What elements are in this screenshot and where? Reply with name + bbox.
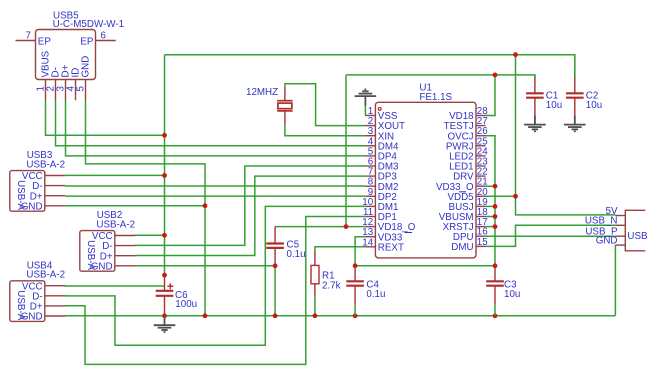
svg-text:GND: GND — [21, 201, 43, 212]
svg-text:10u: 10u — [586, 100, 602, 111]
connector USB3 body — [10, 171, 45, 212]
junction C6 top / 5V — [162, 273, 167, 278]
ground above VSS pin1 (flipped) — [364, 96, 366, 105]
junction C4 bottom / rail — [353, 313, 358, 318]
wire crystal top to XOUT pin2 — [285, 84, 365, 126]
capacitor C1 plates — [526, 92, 544, 94]
wire USB5 D+ to DP4 pin5 — [66, 100, 366, 156]
junction C5 bottom / USB2 GND — [273, 263, 278, 268]
capacitor C3 plates — [486, 280, 504, 282]
wire 5V vertical branch to VDD5 and 5V pin — [516, 55, 616, 215]
U1 pin 15 DMU — [476, 245, 486, 247]
wire VD18 rail — [346, 75, 535, 78]
USB5 pin 1 VBUS — [45, 80, 47, 101]
wire C2 top stub — [574, 55, 576, 78]
ground under C6 — [164, 316, 166, 325]
wire USB5 GND down and right — [86, 100, 206, 316]
svg-text:6: 6 — [100, 31, 106, 42]
USB5 pin 4 ID — [75, 80, 77, 101]
USB5 pin 7 EP — [16, 40, 36, 42]
svg-text:USB_N: USB_N — [585, 216, 618, 227]
U1 pin 16 DPU — [476, 235, 486, 237]
wire REXT pin14 to R1 — [315, 247, 365, 251]
USB5 pin 6 EP — [96, 40, 116, 42]
junction R1 bottom / rail — [313, 313, 318, 318]
svg-text:DMU: DMU — [451, 242, 473, 253]
capacitor C5 — [274, 227, 276, 244]
svg-text:REXT: REXT — [378, 242, 404, 253]
svg-text:12MHZ: 12MHZ — [246, 87, 278, 98]
U1 pin 12 VD18_O — [365, 226, 375, 228]
connector USB2 body — [80, 231, 115, 272]
U1 pin 22 DRV — [476, 175, 486, 177]
junction C3 top / VD33 — [493, 263, 498, 268]
junction pin18 VD33 — [493, 214, 498, 219]
junction pin17 VD33 — [493, 224, 498, 229]
svg-text:U-C-M5DW-W-1: U-C-M5DW-W-1 — [53, 19, 124, 30]
USB5 pin 5 GND — [85, 80, 87, 101]
svg-text:7: 7 — [26, 31, 31, 42]
wire C1 top stub — [534, 75, 536, 78]
wire USB3 D+ to DP2 pin9 — [65, 195, 365, 197]
USB4 pin VCC — [45, 285, 65, 287]
svg-text:USB: USB — [627, 231, 648, 242]
capacitor C6 electrolytic — [164, 275, 166, 290]
wire USB_N pin15 to connector — [486, 225, 616, 246]
U1 pin-1 marker — [378, 108, 381, 111]
wire USB GND drop — [614, 245, 616, 316]
junction pin21 VD33 — [493, 184, 498, 189]
wire USB2 D- to DM3 pin6 — [135, 166, 366, 245]
wire VD33 right vertical pin26 to C3 — [486, 136, 496, 267]
svg-text:GND: GND — [91, 261, 113, 272]
wire USB_P pin16 to connector — [486, 235, 616, 237]
junction C6 bottom / rail — [162, 313, 167, 318]
USB2 pin VCC — [115, 235, 135, 237]
capacitor C4 — [354, 266, 356, 282]
USB4 pin D- — [45, 295, 65, 297]
wire pin17 stub join — [486, 226, 496, 228]
U1 pin 9 DP2 — [365, 195, 375, 197]
capacitor C2 plates — [566, 92, 584, 94]
wire pin13 VD33 to C4 — [355, 237, 365, 266]
wire R1 bottom to ground rail — [314, 296, 316, 316]
U1 pin 25 PWRJ — [476, 145, 486, 147]
svg-text:USB-A-2: USB-A-2 — [26, 270, 65, 281]
U1 pin 1 VSS — [365, 115, 375, 117]
U1 pin 28 VD18 — [476, 115, 486, 117]
wire USB4 D- loop to DM1 pin10 — [65, 206, 365, 345]
USB3 pin GND — [45, 205, 65, 207]
U1 pin 20 VDD5 — [476, 195, 486, 197]
USB2 pin GND — [115, 265, 135, 267]
USB3 pin D- — [45, 185, 65, 187]
wire ground rail — [65, 315, 616, 317]
wire 5V left vertical — [164, 55, 166, 276]
USB4 pin D+ — [45, 305, 65, 307]
crystal Y1 12MHZ symbol — [277, 100, 292, 102]
ground under C2 — [574, 115, 576, 124]
svg-text:EP: EP — [38, 36, 52, 47]
USB pin / net label GND — [615, 244, 625, 246]
ground under C1 — [534, 115, 536, 124]
U1 pin 17 XRSTJ — [476, 226, 486, 228]
junction VDD5 pin20 — [513, 194, 518, 199]
svg-text:GND: GND — [596, 236, 618, 247]
USB2 pin D+ — [115, 255, 135, 257]
svg-text:15: 15 — [477, 237, 488, 248]
overline after VD33 pin13 label — [405, 232, 413, 234]
U1 pin 2 XOUT — [365, 125, 375, 127]
junction pin19 VD33 — [493, 204, 498, 209]
wire VD18 left vertical to pin 12 — [345, 75, 347, 227]
wire USB3 VCC to 5V vertical — [65, 174, 164, 176]
USB5 pin 2 D- — [55, 80, 57, 101]
wire USB4 VCC to C6 — [65, 285, 165, 287]
svg-text:100u: 100u — [175, 299, 197, 310]
USB pin / net label USB_P — [615, 235, 625, 237]
svg-text:USB-A-2: USB-A-2 — [26, 160, 65, 171]
junction pin12 / VD18 vertical — [344, 224, 349, 229]
wire 5V top rail — [165, 55, 575, 78]
U1 pin 7 DP3 — [365, 175, 375, 177]
junction VD18 rail / pin28 riser — [493, 73, 498, 78]
U1 pin 24 LED2 — [476, 155, 486, 157]
junction USB3 GND — [203, 203, 208, 208]
overline on VDD5 second D — [459, 191, 466, 193]
wire pin19 stub join — [486, 205, 496, 207]
wire VD33 horizontal C4 to C3 — [355, 265, 495, 267]
wire USB2 D+ to DP3 pin7 — [135, 176, 366, 255]
U1 pin 18 VBUSM — [476, 216, 486, 218]
U1 pin 21 VD33_O — [476, 185, 486, 187]
svg-text:EP: EP — [80, 36, 94, 47]
svg-text:0.1u: 0.1u — [366, 289, 385, 300]
wire USB2 VCC to 5V vertical — [135, 234, 165, 236]
connector USB5 body — [36, 30, 96, 80]
svg-text:10u: 10u — [546, 100, 562, 111]
U1 pin 19 BUSJ — [476, 205, 486, 207]
wire pin21 stub join — [486, 185, 496, 187]
junction GND vertical / rail — [203, 313, 208, 318]
USB4 pin GND — [45, 315, 65, 317]
wire pin28 VD18 riser — [486, 75, 496, 116]
wire USB2 GND to C5 bottom — [135, 265, 276, 267]
op-amp U1 FE1.1S body — [375, 102, 476, 258]
U1 pin 23 LED1 — [476, 165, 486, 167]
connector USB4 body — [10, 281, 45, 322]
C6 plus sign — [167, 285, 173, 287]
svg-text:GND: GND — [81, 56, 92, 78]
svg-text:14: 14 — [362, 237, 373, 248]
U1 pin 6 DM3 — [365, 165, 375, 167]
svg-text:USB-A-2: USB-A-2 — [96, 220, 135, 231]
capacitor C1 — [534, 78, 536, 93]
resistor R1 body — [311, 265, 319, 283]
U1 pin 26 OVCJ — [476, 135, 486, 137]
junction USB2 VCC / 5V — [162, 233, 167, 238]
svg-text:10u: 10u — [504, 289, 520, 300]
svg-text:GND: GND — [21, 312, 43, 323]
wire USB3 GND join — [65, 205, 205, 207]
U1 pin 5 DP4 — [365, 155, 375, 157]
wire crystal bottom to XIN pin3 — [285, 125, 365, 136]
U1 pin 3 XIN — [365, 135, 375, 137]
junction C3 bottom / rail — [493, 313, 498, 318]
wire VDD5 pin20 to 5V vertical — [486, 195, 516, 197]
USB2 pin D- — [115, 245, 135, 247]
USB pin / net label 5V — [615, 215, 625, 217]
USB3 pin VCC — [45, 175, 65, 177]
junction 5V rail / branch — [513, 52, 518, 57]
USB3 pin D+ — [45, 195, 65, 197]
USB5 pin 3 D+ — [65, 80, 67, 101]
junction C4 top / VD33 — [353, 263, 358, 268]
capacitor C3 — [494, 266, 496, 282]
capacitor C5 plates — [266, 242, 284, 244]
wire USB3 D- to DM2 pin8 — [65, 185, 365, 187]
svg-text:2.7k: 2.7k — [322, 281, 341, 292]
U1 pin 14 REXT — [365, 246, 375, 248]
U1 pin 4 DM4 — [365, 145, 375, 147]
capacitor C2 — [574, 78, 576, 94]
svg-text:FE1.1S: FE1.1S — [419, 92, 452, 103]
wire USB4 D+ loop to DP1 pin11 — [65, 217, 365, 365]
U1 pin 8 DM2 — [365, 185, 375, 187]
connector USB bracket — [625, 210, 645, 251]
U1 pin 10 DM1 — [365, 205, 375, 207]
wire USB5 D- to DM4 pin4 — [56, 100, 366, 146]
svg-text:0.1u: 0.1u — [287, 249, 306, 260]
U1 pin 27 TESTJ — [476, 125, 486, 127]
wire pin18 stub join — [486, 216, 496, 218]
wire VSS pin1 to ground — [364, 106, 366, 116]
USB pin / net label USB_N — [615, 224, 625, 226]
junction USB3 VCC / 5V — [162, 173, 167, 178]
U1 pin 13 VD33 — [365, 236, 375, 238]
capacitor C4 plates — [346, 280, 364, 282]
junction USB5 VBUS / 5V — [162, 133, 167, 138]
svg-text:5: 5 — [75, 86, 86, 92]
wire pin12 VD18_O to C5 top — [275, 226, 365, 228]
U1 pin 11 DP1 — [365, 216, 375, 218]
wire C5 bottom to ground rail — [274, 266, 276, 316]
wire USB5 VBUS to 5V vertical — [46, 100, 165, 135]
junction C5 ground / rail — [273, 313, 278, 318]
